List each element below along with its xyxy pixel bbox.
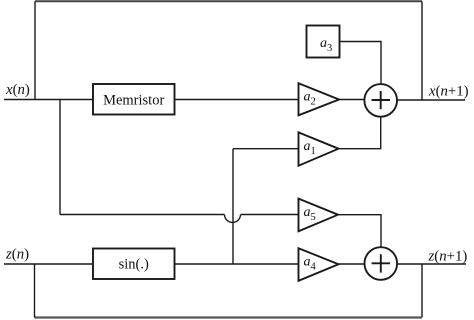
summer S1 circle [364, 84, 397, 117]
gain a2 triangle [299, 83, 340, 115]
wire hop over vertical node line [225, 215, 241, 223]
summer S1 plus sign [372, 91, 391, 109]
summer S2 circle [365, 247, 398, 280]
wire summer S2 output to z(n+1) [397, 263, 466, 265]
block Memristor box [93, 84, 175, 115]
svg-text:z(n+1): z(n+1) [428, 248, 468, 264]
gain a3 box [307, 26, 340, 58]
svg-text:sin(.): sin(.) [119, 257, 149, 273]
wire a1 output up into summer S1 bottom [339, 117, 381, 149]
wire sin output to a4 input [175, 263, 299, 265]
wire left vertical feedback into x(n) node [34, 1, 36, 99]
svg-text:z(n): z(n) [5, 246, 29, 262]
wire z(n) input stub [4, 263, 93, 265]
wire top feedback line x(n+1) to x(n) [35, 0, 422, 2]
wire right vertical feedback from x(n+1) node [421, 1, 423, 100]
wire summer S1 output to x(n+1) [397, 99, 465, 101]
wire a2 output to summer S1 [339, 99, 365, 101]
wire a4 output to summer S2 [339, 263, 365, 265]
gain a4 triangle [299, 248, 339, 281]
block sin(.) box [93, 249, 175, 280]
wire z(n+1) vertical feedback down [421, 264, 423, 318]
svg-text:x(n+1): x(n+1) [428, 84, 469, 100]
gain a1 triangle [299, 132, 339, 165]
wire vertical node line from a1 input down to sin output line [232, 149, 234, 264]
wire a1 input from node line [233, 148, 299, 150]
summer S2 plus sign [372, 254, 391, 272]
wire from x(n) node down [59, 100, 61, 215]
wire x(n) branch to a5 input with hop [60, 214, 225, 216]
wire x(n) input stub [4, 99, 93, 101]
gain a5 triangle [299, 199, 339, 232]
svg-text:Memristor: Memristor [103, 92, 164, 108]
svg-text:x(n): x(n) [5, 82, 30, 98]
wire a3 output to summer S1 top [340, 42, 381, 85]
wire Memristor output to a2 input [175, 99, 299, 101]
wire hop right segment to a5 [241, 214, 299, 216]
wire left vertical feedback into z(n) node [34, 264, 36, 318]
wire a5 output to summer S2 top [338, 215, 381, 248]
wire bottom feedback line [35, 316, 423, 318]
